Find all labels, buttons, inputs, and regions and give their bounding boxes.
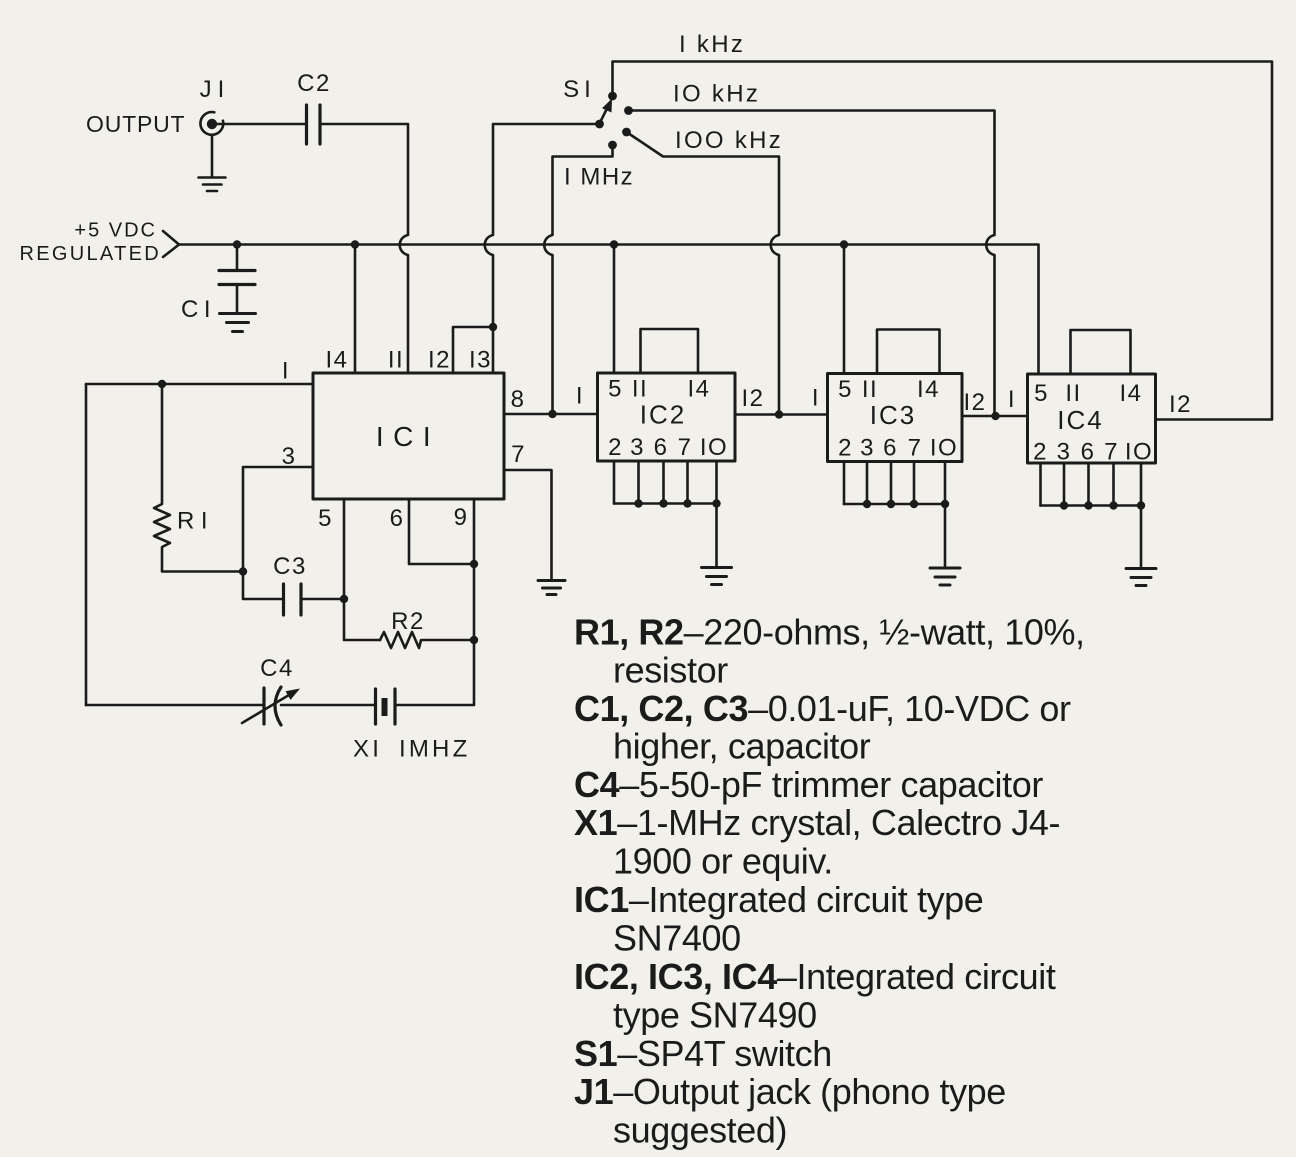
- svg-text:5: 5: [318, 505, 333, 532]
- node junction dot R1 top: [158, 380, 166, 388]
- svg-text:7: 7: [511, 441, 526, 468]
- wire bottom return to C4: [86, 704, 264, 707]
- wire IC1 pin 8 to IC2 pin 1: [504, 413, 598, 416]
- svg-text:II: II: [388, 347, 404, 374]
- ground (IC4): [1126, 569, 1156, 586]
- svg-text:I4: I4: [1119, 380, 1142, 407]
- svg-text:II: II: [632, 376, 648, 403]
- svg-text:XI: XI: [353, 736, 382, 763]
- svg-text:2: 2: [608, 434, 623, 461]
- wire IC4 bottom pins to bus: [1041, 463, 1142, 506]
- wire IC1 pin 3 to C3: [243, 467, 313, 599]
- wire 10 kHz line down to IC3 pin 12 node (hop over rail): [629, 111, 995, 417]
- svg-text:RI: RI: [177, 508, 214, 535]
- wire +5V rail: [179, 245, 1039, 375]
- svg-text:6: 6: [390, 505, 405, 532]
- ground (J1): [199, 135, 226, 191]
- svg-text:3: 3: [630, 434, 645, 461]
- switch S1 contact 100 kHz: [622, 128, 631, 137]
- svg-text:5: 5: [838, 376, 853, 403]
- svg-text:I: I: [1008, 386, 1016, 413]
- svg-text:I2: I2: [428, 347, 451, 374]
- svg-text:7: 7: [1104, 439, 1119, 466]
- svg-text:C3: C3: [273, 553, 307, 580]
- node +5V input arrow: [163, 231, 179, 257]
- svg-text:JI: JI: [200, 76, 231, 103]
- svg-text:C1, C2, C3–0.01-uF, 10-VDC or: C1, C2, C3–0.01-uF, 10-VDC or: [574, 688, 1071, 729]
- svg-text:SN7400: SN7400: [613, 918, 741, 959]
- svg-text:I kHz: I kHz: [679, 31, 745, 58]
- svg-text:type SN7490: type SN7490: [613, 994, 817, 1035]
- svg-text:I2: I2: [1169, 391, 1192, 418]
- svg-text:CI: CI: [181, 296, 216, 323]
- switch S1 contact 1 MHz: [608, 141, 617, 150]
- svg-text:IC2, IC3, IC4–Integrated circu: IC2, IC3, IC4–Integrated circuit: [574, 956, 1056, 997]
- svg-text:9: 9: [454, 504, 469, 531]
- svg-text:resistor: resistor: [613, 650, 728, 691]
- wire IC1 pin 9 down to X1: [396, 499, 474, 705]
- svg-text:IC3: IC3: [870, 400, 916, 430]
- svg-text:3: 3: [1057, 439, 1072, 466]
- svg-text:IC4: IC4: [1057, 405, 1103, 435]
- wire IC1 pin 14 to rail: [354, 245, 357, 374]
- svg-text:S1–SP4T switch: S1–SP4T switch: [574, 1033, 832, 1074]
- svg-text:7: 7: [908, 435, 923, 462]
- wire IC2 bus to ground: [715, 504, 718, 568]
- svg-text:I: I: [282, 358, 290, 385]
- node junction dot pin8 / 1MHz: [548, 410, 556, 418]
- wire IC3 bus to ground: [944, 504, 947, 568]
- resistor R1: [154, 384, 239, 572]
- wire C3 to pin 5 node: [302, 598, 345, 601]
- capacitor C3: [284, 584, 302, 615]
- wire IC1 pin 1: [86, 383, 313, 386]
- svg-text:I: I: [812, 385, 820, 412]
- svg-text:I4: I4: [917, 376, 940, 403]
- svg-text:SI: SI: [563, 76, 596, 103]
- svg-text:OUTPUT: OUTPUT: [86, 111, 185, 137]
- ground (IC1 pin 7): [538, 581, 565, 595]
- ground (IC3): [930, 568, 960, 585]
- svg-text:IO: IO: [930, 435, 958, 462]
- wire 1 kHz line to IC4 pin 12: [613, 62, 1273, 420]
- wire IC2 pins 11-14 loop: [641, 329, 699, 373]
- svg-text:I3: I3: [469, 347, 492, 374]
- svg-text:C4–5-50-pF trimmer capacitor: C4–5-50-pF trimmer capacitor: [574, 764, 1043, 805]
- svg-text:IMHZ: IMHZ: [399, 736, 470, 763]
- wire IC3 pin 12 to IC4 pin 1: [962, 415, 1028, 418]
- node junction dot C3 / pin5: [340, 595, 348, 603]
- switch S1 pole dot: [595, 120, 604, 129]
- wire 1 MHz contact down to IC1 pin 8 node (hop over rail): [544, 145, 612, 414]
- svg-text:2: 2: [1033, 439, 1048, 466]
- ground (C1): [220, 314, 256, 332]
- svg-text:I MHz: I MHz: [564, 164, 634, 191]
- capacitor C4 trimmer: [242, 687, 300, 725]
- node junction dot R2 right / pin9: [470, 636, 478, 644]
- wire IC1 pin 5 down to R2: [344, 499, 380, 640]
- parts list text: [574, 611, 1085, 1150]
- svg-text:II: II: [1065, 380, 1081, 407]
- resistor R2: [380, 632, 474, 648]
- wire IC1 pin 7 to ground: [504, 470, 552, 580]
- wire pin13 node up to S1 pole (hop over rail): [485, 124, 596, 327]
- switch S1 contact 1 kHz: [608, 92, 617, 101]
- svg-text:3: 3: [860, 435, 875, 462]
- capacitor C2: [307, 105, 321, 144]
- svg-text:6: 6: [1081, 439, 1096, 466]
- switch S1 contact 10 kHz: [624, 106, 633, 115]
- wire C2 to IC1 pin 11 (crosses +5V rail with hop): [321, 124, 409, 373]
- wire IC2 bottom pins to bus: [614, 461, 717, 504]
- node junction dot IC3 pin5 on rail: [840, 240, 848, 248]
- svg-text:IOO kHz: IOO kHz: [675, 127, 783, 154]
- svg-text:7: 7: [678, 434, 693, 461]
- node junction dot R1 bottom / pin3 branch: [239, 567, 247, 575]
- wire IC4 pins 11-14 loop: [1071, 330, 1131, 374]
- svg-text:J1–Output jack (phono type: J1–Output jack (phono type: [574, 1071, 1006, 1112]
- IC3 box: [828, 374, 963, 462]
- svg-text:5: 5: [1034, 380, 1049, 407]
- wire left feedback vertical: [85, 384, 88, 705]
- svg-text:II: II: [862, 376, 878, 403]
- svg-text:6: 6: [654, 434, 669, 461]
- svg-text:6: 6: [883, 435, 898, 462]
- wire IC1 pin 6 to pin 9: [409, 499, 474, 564]
- svg-text:R1, R2–220-ohms, ½-watt, 10%,: R1, R2–220-ohms, ½-watt, 10%,: [574, 611, 1085, 652]
- wire IC2 pin 12 to IC3 pin 1: [735, 413, 828, 416]
- node junction dot pin14 on rail: [351, 240, 359, 248]
- svg-text:IO: IO: [700, 434, 728, 461]
- svg-text:I4: I4: [687, 376, 710, 403]
- svg-text:R2: R2: [391, 608, 425, 635]
- node junction dots IC2 bus: [634, 499, 720, 507]
- node junction dots IC4 bus: [1060, 501, 1145, 509]
- svg-text:IC2: IC2: [640, 400, 686, 430]
- svg-text:I2: I2: [963, 389, 986, 416]
- svg-text:I2: I2: [741, 385, 764, 412]
- svg-text:I4: I4: [325, 347, 348, 374]
- svg-text:IC1–Integrated circuit type: IC1–Integrated circuit type: [574, 879, 983, 920]
- wire IC1 pins 12-13 loop: [453, 327, 493, 373]
- wire IC3 pins 11-14 loop: [877, 330, 940, 374]
- wire IC2 pin 5 to rail: [613, 245, 616, 374]
- crystal X1: [376, 689, 396, 724]
- svg-text:IO kHz: IO kHz: [673, 81, 760, 108]
- node junction dot IC2 pin5 on rail: [610, 240, 618, 248]
- svg-text:1900 or equiv.: 1900 or equiv.: [613, 841, 833, 882]
- node junction dot pin6 / pin9: [470, 560, 478, 568]
- svg-text:REGULATED: REGULATED: [20, 243, 161, 265]
- wire J1 to C2: [217, 123, 306, 126]
- svg-text:suggested): suggested): [613, 1110, 787, 1151]
- svg-text:higher, capacitor: higher, capacitor: [613, 725, 871, 766]
- node junction dot C1 on rail: [233, 240, 241, 248]
- capacitor C1: [219, 245, 255, 314]
- node junction dots IC3 bus: [863, 500, 949, 508]
- wire IC3 bottom pins to bus: [844, 462, 945, 505]
- switch S1 arm with arrowhead: [600, 99, 612, 123]
- svg-text:I: I: [576, 383, 584, 410]
- svg-text:X1–1-MHz crystal, Calectro J4-: X1–1-MHz crystal, Calectro J4-: [574, 802, 1060, 843]
- node junction dot IC3 pin12 / 10kHz: [991, 412, 999, 420]
- IC4 box: [1028, 374, 1156, 463]
- svg-text:+5 VDC: +5 VDC: [74, 220, 157, 242]
- wire IC4 bus to ground: [1140, 506, 1143, 569]
- wire 100 kHz line down to IC2 pin 12 node (hop over rail): [627, 132, 780, 415]
- svg-text:5: 5: [608, 376, 623, 403]
- connector J1 output jack: [200, 112, 223, 135]
- ground (IC2): [702, 568, 732, 585]
- svg-text:8: 8: [511, 386, 526, 413]
- svg-text:C2: C2: [297, 70, 331, 97]
- node junction dot IC2 pin12 / 100kHz: [775, 410, 783, 418]
- svg-text:ICI: ICI: [376, 421, 440, 452]
- svg-text:2: 2: [838, 435, 853, 462]
- op-amp IC1 box: [313, 373, 504, 499]
- wire IC3 pin 5 to rail: [843, 245, 846, 374]
- svg-text:C4: C4: [260, 655, 294, 682]
- IC2 box: [598, 373, 736, 461]
- svg-text:3: 3: [282, 443, 297, 470]
- node junction dot pins 12/13: [489, 323, 497, 331]
- wire X1 to C4: [281, 704, 375, 707]
- svg-text:IO: IO: [1125, 439, 1153, 466]
